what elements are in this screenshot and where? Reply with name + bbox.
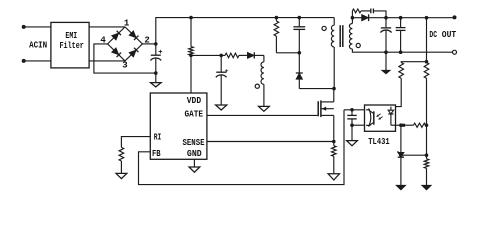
svg-text:RI: RI [154,131,162,142]
svg-text:+: + [225,68,229,75]
svg-text:GND: GND [187,148,202,159]
svg-text:1: 1 [124,19,130,29]
svg-text:OUT: OUT [442,29,457,40]
svg-text:TL431: TL431 [368,136,390,147]
svg-text:ACIN: ACIN [29,39,47,50]
svg-text:Filter: Filter [60,40,84,51]
svg-text:SENSE: SENSE [183,137,205,148]
svg-text:FB: FB [152,148,161,159]
svg-text:3: 3 [122,60,127,70]
svg-text:DC: DC [429,29,437,40]
svg-text:VDD: VDD [187,95,202,106]
svg-text:+: + [158,49,162,57]
svg-text:GATE: GATE [185,109,204,120]
